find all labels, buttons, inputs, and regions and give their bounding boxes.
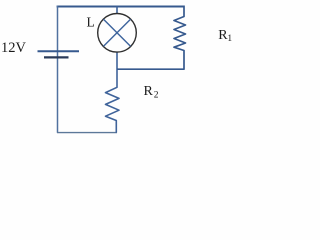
svg-text:2: 2: [154, 91, 159, 101]
svg-text:R: R: [144, 84, 154, 99]
svg-text:L: L: [87, 15, 95, 30]
svg-text:1: 1: [227, 34, 232, 44]
svg-text:12V: 12V: [1, 40, 27, 56]
